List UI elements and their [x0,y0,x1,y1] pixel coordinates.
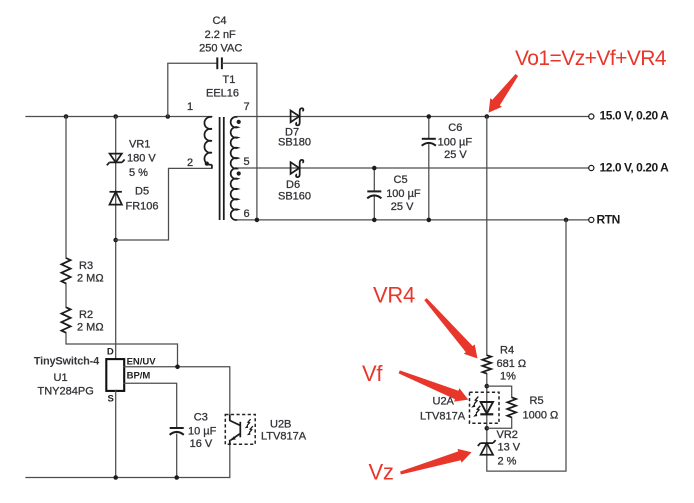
capacitor C3 [170,412,217,451]
svg-text:TNY284PG: TNY284PG [38,386,94,398]
svg-text:7: 7 [244,101,250,113]
svg-text:S: S [108,393,114,404]
svg-text:681 Ω: 681 Ω [497,358,527,370]
node junction EN/UV-R2 [175,365,180,370]
opto LED U2A [420,392,499,423]
wire C4 left branch [168,63,217,116]
wire 15V rail [238,116,589,118]
svg-text:100 µF: 100 µF [386,188,421,200]
svg-text:1000 Ω: 1000 Ω [523,410,559,422]
node junction 15V feedback tap [485,114,490,119]
terminal RTN [589,213,620,227]
svg-text:25 V: 25 V [391,201,414,213]
transformer T1 core [220,117,224,220]
annotation arrow Vf [399,370,469,401]
svg-text:BP/M: BP/M [127,371,151,382]
wire R5 branch [487,386,512,428]
diode D7 [278,108,311,148]
svg-text:VR1: VR1 [129,139,150,151]
capacitor C5 [367,168,421,220]
node junction C3-ground [174,475,179,480]
wire primary pin2 [116,168,212,240]
svg-text:12.0 V, 0.20 A: 12.0 V, 0.20 A [600,161,670,175]
wire feedback vertical from 15V [487,117,566,472]
svg-text:U2B: U2B [270,419,291,431]
svg-text:15.0 V, 0.20 A: 15.0 V, 0.20 A [600,109,670,123]
node phase dot secondary lower [237,171,241,175]
node junction rail-VR1 [113,114,118,119]
svg-text:D5: D5 [135,186,149,198]
svg-text:VR2: VR2 [497,429,518,441]
svg-text:D: D [107,347,114,358]
node junction rail-R3 [64,114,69,119]
annotation Vz [369,460,394,485]
svg-text:C4: C4 [212,15,226,27]
resistor R3 [61,258,103,285]
svg-text:U2A: U2A [433,396,455,408]
svg-text:5: 5 [244,156,250,168]
zener VR1 [107,139,157,180]
svg-text:16 V: 16 V [190,438,213,450]
wire EN/UV pin [124,357,230,415]
svg-text:R5: R5 [530,395,544,407]
svg-text:VR4: VR4 [373,283,415,308]
svg-text:C5: C5 [394,174,408,186]
svg-text:SB180: SB180 [278,137,311,149]
svg-text:2 %: 2 % [498,456,517,468]
svg-text:EEL16: EEL16 [206,88,239,100]
IC U1 TNY284PG [34,347,124,405]
node junction C6 bottom [427,218,432,223]
annotation arrow Vz [400,449,471,475]
svg-text:U1: U1 [54,372,68,384]
svg-text:R4: R4 [500,345,514,357]
wire RTN rail [238,219,589,221]
annotation VR4 [373,283,415,308]
svg-text:LTV817A: LTV817A [420,411,466,423]
svg-text:RTN: RTN [597,213,620,227]
svg-text:2.2 nF: 2.2 nF [205,29,236,41]
svg-text:6: 6 [244,208,250,220]
capacitor C4 [199,15,242,69]
svg-text:EN/UV: EN/UV [127,357,157,368]
node junction C6 top [427,114,432,119]
svg-text:LTV817A: LTV817A [261,431,307,443]
transformer T1 secondary winding upper [231,101,250,169]
label T1 [206,74,239,100]
node junction C5 top [372,166,377,171]
svg-text:250 VAC: 250 VAC [199,43,242,55]
transformer T1 primary winding [187,101,212,169]
svg-text:R3: R3 [79,260,93,272]
resistor R5 [507,395,558,422]
node junction rail-C4 [166,114,171,119]
annotation arrow VR4 [424,298,477,358]
svg-text:25 V: 25 V [444,149,467,161]
annotation Vo1 formula [515,47,667,70]
resistor R2 [61,307,103,333]
node junction LED-VR2 [485,426,490,431]
node junction C5 bottom [372,218,377,223]
svg-text:2 MΩ: 2 MΩ [77,273,104,285]
svg-text:C6: C6 [448,122,462,134]
node phase dot primary [205,162,209,166]
wire bottom ground rail [26,444,230,477]
svg-text:2: 2 [187,157,193,169]
svg-text:1: 1 [187,101,193,113]
node junction C4-RTN [255,218,260,223]
wire BP/M pin [124,371,177,478]
svg-text:Vo1=Vz+Vf+VR4: Vo1=Vz+Vf+VR4 [515,47,667,70]
svg-text:D6: D6 [286,179,300,191]
resistor R4 [482,345,526,383]
svg-text:T1: T1 [223,74,236,86]
diode D6 [278,160,311,203]
svg-text:Vz: Vz [369,460,394,485]
svg-text:180 V: 180 V [127,153,156,165]
svg-text:13 V: 13 V [498,442,521,454]
svg-text:10 µF: 10 µF [188,426,217,438]
node phase dot secondary upper [237,120,241,124]
wire zener branch vertical [115,117,117,359]
svg-text:C3: C3 [194,412,208,424]
svg-text:FR106: FR106 [126,201,159,213]
wire R3 R2 branch [66,117,178,367]
svg-text:SB160: SB160 [278,191,311,203]
annotation Vf [362,361,383,386]
terminal 15V output [589,109,669,123]
terminal 12V output [589,161,669,175]
svg-text:2 MΩ: 2 MΩ [77,322,104,334]
wire top input rail [26,116,212,118]
transformer T1 secondary winding lower [231,168,250,220]
svg-text:TinySwitch-4: TinySwitch-4 [34,356,100,368]
node junction R4-LED [485,384,490,389]
svg-text:1%: 1% [500,371,516,383]
wire S pin to ground rail [115,390,117,477]
wire 12V rail [239,167,589,169]
svg-text:5 %: 5 % [129,167,148,179]
opto transistor U2B [225,415,306,445]
diode D5 [110,186,159,213]
node junction RTN return [564,218,569,223]
wire C4 right branch down to RTN [223,63,257,220]
svg-text:R2: R2 [79,309,93,321]
svg-text:100 µF: 100 µF [438,137,473,149]
capacitor C6 [422,117,473,220]
annotation arrow Vo1 [489,74,518,113]
node junction S-ground [113,475,118,480]
zener VR2 [478,429,521,468]
svg-text:Vf: Vf [362,361,383,386]
node junction D5-pin2 [113,238,118,243]
